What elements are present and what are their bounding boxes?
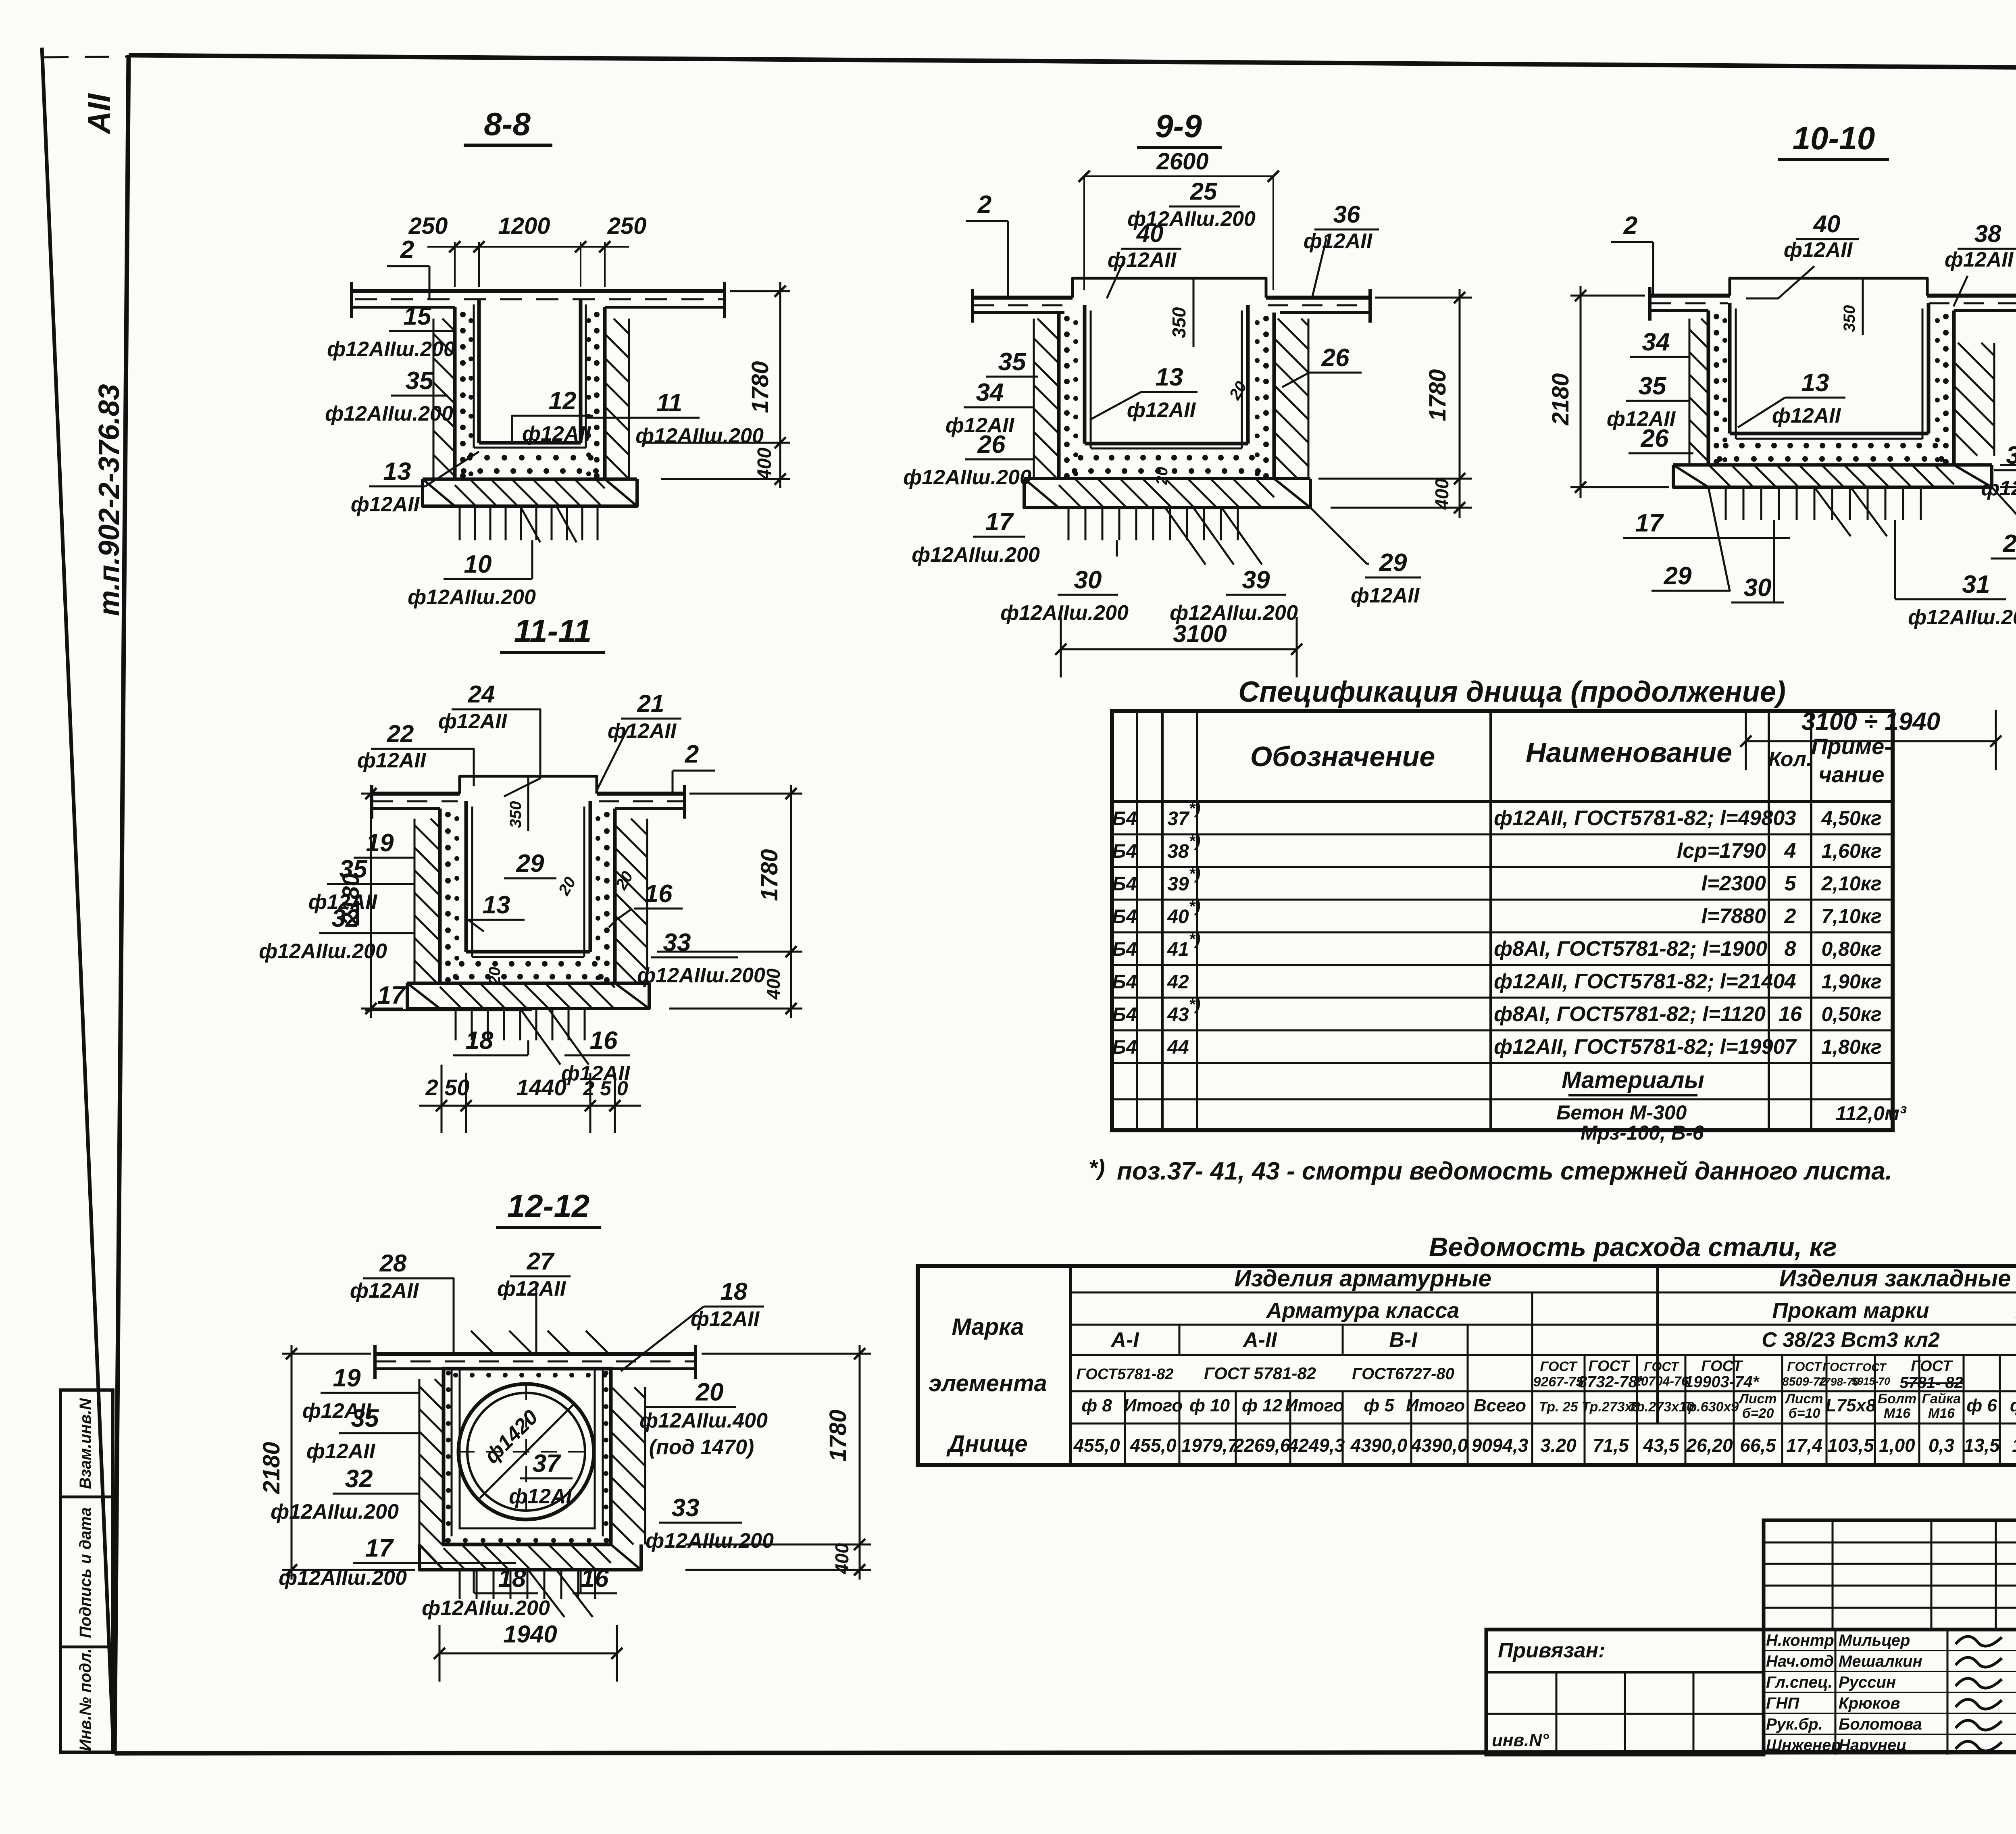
svg-text:26,20: 26,20 [1686, 1435, 1733, 1456]
svg-text:1,00: 1,00 [1879, 1435, 1915, 1456]
section 12-12 right dim 1780/400 [702, 1353, 871, 1355]
svg-text:71,5: 71,5 [1593, 1435, 1629, 1456]
section 10-10 outer hatch bands [1689, 464, 1691, 466]
svg-text:ф12АIIш.200: ф12АIIш.200 [903, 466, 1031, 489]
svg-text:27: 27 [527, 1248, 555, 1275]
svg-text:М16: М16 [1928, 1406, 1955, 1421]
svg-text:2600: 2600 [1156, 148, 1208, 175]
svg-text:Лист: Лист [1738, 1391, 1776, 1407]
svg-text:ф12АIIш.200: ф12АIIш.200 [271, 1500, 399, 1523]
svg-text:17,4: 17,4 [1786, 1435, 1822, 1456]
svg-text:13: 13 [383, 458, 411, 486]
svg-text:*): *) [1089, 1155, 1105, 1180]
section 12-12 wall dots [446, 1371, 451, 1375]
svg-text:9094,3: 9094,3 [1472, 1435, 1529, 1456]
steel table col verticals [1124, 1391, 1126, 1465]
svg-text:29: 29 [1379, 549, 1407, 577]
svg-text:17: 17 [377, 982, 406, 1009]
section 12-12 bottom skirt [419, 1544, 641, 1570]
svg-text:Наименование: Наименование [1526, 737, 1732, 768]
svg-text:26: 26 [1641, 425, 1669, 452]
svg-text:ф12АII: ф12АII [350, 1279, 419, 1303]
svg-text:4,50кг: 4,50кг [1821, 807, 1881, 829]
svg-text:ГОСТ 5781-82: ГОСТ 5781-82 [1204, 1364, 1316, 1383]
svg-text:Ведомость расхода стали, кг: Ведомость расхода стали, кг [1429, 1232, 1837, 1262]
svg-text:Рук.бр.: Рук.бр. [1766, 1715, 1823, 1733]
svg-text:Привязан:: Привязан: [1498, 1639, 1605, 1662]
svg-text:Болт: Болт [1878, 1391, 1916, 1407]
svg-text:2 50: 2 50 [425, 1075, 470, 1100]
svg-text:38: 38 [1974, 220, 2001, 247]
svg-text:ф12АIIш.200: ф12АIIш.200 [637, 964, 765, 987]
svg-text:Руссин: Руссин [1839, 1674, 1896, 1691]
svg-text:10-10: 10-10 [1793, 120, 1875, 156]
svg-text:250: 250 [607, 213, 647, 239]
svg-text:ф12АII, ГОСТ5781-82; l=1990: ф12АII, ГОСТ5781-82; l=1990 [1494, 1035, 1785, 1059]
svg-text:17: 17 [365, 1534, 394, 1562]
svg-text:ГОСТ: ГОСТ [1701, 1358, 1743, 1375]
svg-text:20: 20 [486, 967, 504, 986]
svg-text:ф 10: ф 10 [1189, 1396, 1230, 1415]
svg-text:16: 16 [581, 1565, 609, 1592]
svg-text:ф12АII: ф12АII [1351, 584, 1420, 607]
svg-text:2: 2 [685, 740, 699, 768]
svg-text:ф12АIIш.200: ф12АIIш.200 [327, 338, 455, 361]
section 9-9 top slab [972, 296, 1073, 300]
svg-text:1780: 1780 [1425, 369, 1451, 421]
svg-text:20: 20 [1153, 467, 1171, 486]
svg-text:Подпись и дата: Подпись и дата [77, 1507, 94, 1638]
svg-text:1780: 1780 [756, 849, 783, 901]
svg-text:АII: АII [81, 93, 117, 135]
section 11-11 top slab [371, 792, 460, 796]
svg-text:15: 15 [404, 302, 432, 330]
svg-text:Мильцер: Мильцер [1839, 1632, 1910, 1649]
svg-text:*): *) [1189, 800, 1201, 817]
svg-text:ГОСТ: ГОСТ [1588, 1358, 1630, 1375]
svg-text:4249,3: 4249,3 [1288, 1435, 1345, 1456]
frame border bottom [115, 1752, 2016, 1753]
spec table grid [1112, 711, 1893, 1130]
svg-text:Итого: Итого [1285, 1396, 1344, 1415]
svg-text:0,3: 0,3 [1929, 1435, 1954, 1456]
svg-text:Итого: Итого [1406, 1396, 1465, 1415]
svg-text:ГОСТ: ГОСТ [1644, 1359, 1679, 1374]
svg-text:т.п.902-2-376.83: т.п.902-2-376.83 [93, 384, 125, 616]
svg-text:10704-76: 10704-76 [1634, 1374, 1688, 1388]
svg-text:4: 4 [1784, 970, 1796, 993]
frame border left [115, 55, 129, 1753]
svg-text:19: 19 [333, 1364, 361, 1392]
svg-text:Днище: Днище [946, 1431, 1027, 1457]
svg-text:ГОСТ: ГОСТ [1787, 1359, 1822, 1374]
svg-text:*): *) [1189, 832, 1201, 850]
svg-text:инв.N°: инв.N° [1492, 1730, 1549, 1750]
svg-text:ф12АI: ф12АI [509, 1485, 572, 1508]
section 8-8 walls U-shape [453, 307, 457, 479]
svg-text:18: 18 [466, 1027, 494, 1055]
svg-text:ф 5: ф 5 [1364, 1396, 1394, 1415]
svg-text:ф12АII: ф12АII [1784, 238, 1853, 262]
section 12-12 outer hatch bands [419, 1544, 421, 1546]
section 12-12 hatch above slab [455, 1353, 457, 1355]
svg-text:ф12АIIш.200: ф12АIIш.200 [912, 543, 1040, 567]
svg-text:ГОСТ: ГОСТ [1540, 1359, 1578, 1374]
svg-text:37: 37 [533, 1450, 561, 1478]
svg-text:ГОСТ: ГОСТ [1856, 1361, 1887, 1373]
svg-text:ф12АII, ГОСТ5781-82; l=4980: ф12АII, ГОСТ5781-82; l=4980 [1494, 807, 1785, 830]
svg-text:13,5: 13,5 [1964, 1435, 2000, 1456]
svg-text:7,10кг: 7,10кг [1821, 905, 1881, 927]
svg-text:*): *) [1189, 898, 1201, 915]
svg-text:1940: 1940 [503, 1621, 557, 1648]
svg-text:21: 21 [637, 690, 664, 717]
svg-text:Лист: Лист [1784, 1391, 1823, 1407]
svg-text:Мрз-100, В-6: Мрз-100, В-6 [1581, 1121, 1704, 1144]
svg-text:L75x8: L75x8 [1826, 1396, 1876, 1415]
svg-text:Всего: Всего [1474, 1396, 1526, 1415]
svg-text:350: 350 [1841, 305, 1858, 332]
svg-text:42: 42 [1167, 971, 1189, 993]
svg-text:12-12: 12-12 [507, 1188, 590, 1224]
svg-text:2,10кг: 2,10кг [1821, 872, 1881, 895]
section 11-11 left dim 2180 [361, 793, 435, 795]
title block left attach table [1486, 1630, 1764, 1755]
svg-text:ф12АIIш.200: ф12АIIш.200 [646, 1529, 774, 1553]
svg-text:Гайка: Гайка [1922, 1391, 1961, 1407]
svg-text:40: 40 [1136, 220, 1164, 247]
svg-text:ф12АIIш.400: ф12АIIш.400 [639, 1409, 768, 1432]
svg-text:ф12АII: ф12АII [357, 749, 427, 772]
section 8-8 right dim 1780/400 [730, 290, 790, 292]
svg-text:ф12АII: ф12АII [691, 1307, 760, 1331]
section 12-12 circle opening [458, 1384, 594, 1519]
svg-text:Тр.630x9: Тр.630x9 [1681, 1399, 1739, 1415]
svg-text:В-I: В-I [1389, 1328, 1418, 1352]
svg-text:ф12АII: ф12АII [1108, 248, 1177, 272]
section 12-12 circle diagonal dim [480, 1403, 575, 1498]
svg-text:Н.контр: Н.контр [1766, 1632, 1834, 1649]
svg-text:Б4: Б4 [1112, 939, 1137, 960]
section 9-9 wall dots [1064, 316, 1070, 321]
svg-text:ф12АIIш.200: ф12АIIш.200 [1000, 601, 1129, 625]
svg-text:2: 2 [977, 191, 991, 219]
svg-text:ф12АII: ф12АII [438, 710, 508, 733]
svg-text:2269,6: 2269,6 [1233, 1435, 1291, 1456]
svg-text:М16: М16 [1884, 1406, 1911, 1421]
svg-text:ф12АII: ф12АII [351, 493, 420, 516]
svg-text:40: 40 [1813, 210, 1841, 238]
svg-text:ф8АI, ГОСТ5781-82; l=1120: ф8АI, ГОСТ5781-82; l=1120 [1494, 1002, 1766, 1026]
svg-text:ф12АII: ф12АII [306, 1440, 376, 1463]
svg-text:24: 24 [468, 681, 495, 708]
section 11-11 below hatch [455, 1009, 457, 1040]
svg-text:ф12АIIш.200: ф12АIIш.200 [1981, 477, 2016, 500]
svg-text:Б4: Б4 [1112, 873, 1137, 895]
section 11-11 bottom slab [407, 982, 649, 985]
section 10-10 below hatch [1725, 487, 1727, 520]
section 10-10 walls [1707, 311, 1710, 465]
svg-text:1979,7: 1979,7 [1181, 1435, 1239, 1456]
svg-text:11: 11 [656, 389, 682, 417]
section 12-12 below hatch [459, 1570, 461, 1599]
svg-text:Крюков: Крюков [1839, 1694, 1900, 1712]
svg-text:Б4: Б4 [1112, 971, 1137, 993]
svg-text:350: 350 [507, 801, 525, 828]
svg-text:30: 30 [1074, 566, 1102, 594]
section 11-11 wall dots [445, 812, 451, 817]
svg-text:17: 17 [1635, 509, 1664, 537]
section 11-11 walls [438, 809, 442, 983]
svg-text:Итого: Итого [1124, 1396, 1183, 1415]
svg-text:Материалы: Материалы [1562, 1067, 1704, 1093]
svg-text:l=2300: l=2300 [1702, 872, 1766, 895]
svg-text:103,5: 103,5 [1827, 1435, 1874, 1456]
svg-text:Взам.инв.N: Взам.инв.N [77, 1398, 94, 1489]
svg-text:40: 40 [1167, 906, 1189, 927]
svg-text:9267-75: 9267-75 [1533, 1374, 1584, 1390]
svg-text:1440: 1440 [516, 1075, 567, 1100]
svg-text:1780: 1780 [825, 1409, 851, 1461]
section 9-9 bottom slab [1024, 477, 1310, 480]
section 10-10 top slab [1649, 294, 1730, 298]
section 9-9 below hatch [1068, 508, 1070, 540]
section 12-12 left dim 2180 [282, 1353, 371, 1355]
svg-text:Инв.№ подл.: Инв.№ подл. [77, 1649, 94, 1751]
section 11-11 outer hatch bands [414, 982, 416, 984]
svg-text:112,0м³: 112,0м³ [1835, 1102, 1906, 1125]
svg-text:ГОСТ: ГОСТ [1911, 1358, 1953, 1375]
svg-text:чание: чание [1819, 762, 1885, 787]
section 12-12 box walls [444, 1369, 611, 1544]
svg-text:1,60кг: 1,60кг [1821, 840, 1881, 862]
svg-text:Б4: Б4 [1112, 906, 1137, 927]
svg-text:А-II: А-II [1242, 1328, 1277, 1352]
svg-text:13: 13 [483, 891, 510, 919]
svg-text:39: 39 [1242, 566, 1270, 594]
svg-text:10: 10 [464, 550, 492, 578]
steel table grid [918, 1266, 2016, 1465]
svg-text:ф12АII: ф12АII [1945, 248, 2014, 271]
svg-text:3: 3 [1785, 807, 1796, 830]
svg-text:43,5: 43,5 [1643, 1435, 1680, 1456]
svg-text:ф 6: ф 6 [1966, 1396, 1997, 1415]
svg-text:2: 2 [1784, 904, 1796, 928]
svg-text:ф12АII, ГОСТ5781-82; l=2140: ф12АII, ГОСТ5781-82; l=2140 [1494, 970, 1785, 993]
svg-text:3100: 3100 [1173, 620, 1227, 647]
svg-text:*): *) [1189, 930, 1201, 948]
section 9-9 walls [1057, 313, 1061, 479]
svg-text:35: 35 [1639, 372, 1667, 400]
svg-text:ГНП: ГНП [1766, 1694, 1799, 1712]
svg-text:ф8АI, ГОСТ5781-82; l=1900: ф8АI, ГОСТ5781-82; l=1900 [1494, 937, 1767, 961]
svg-text:18: 18 [498, 1565, 526, 1592]
svg-text:Спецификация днища (продолжен: Спецификация днища (продолжение) [1238, 676, 1786, 708]
svg-text:35: 35 [351, 1405, 379, 1432]
svg-text:250: 250 [408, 213, 448, 239]
svg-text:ф12АII: ф12АII [497, 1277, 566, 1300]
svg-text:16: 16 [1779, 1002, 1802, 1026]
svg-text:350: 350 [1168, 307, 1189, 338]
svg-text:34: 34 [1642, 328, 1670, 356]
title block signatures squiggles [1956, 1636, 2002, 1646]
svg-text:0,80кг: 0,80кг [1821, 938, 1881, 960]
svg-text:Марка: Марка [952, 1314, 1024, 1340]
svg-text:ф 12: ф 12 [1242, 1396, 1283, 1415]
svg-text:*): *) [1189, 996, 1201, 1013]
section 10-10 slab step [1730, 278, 1927, 296]
section 8-8 bottom slab [423, 477, 637, 481]
svg-text:*): *) [1189, 865, 1201, 883]
svg-text:Обозначение: Обозначение [1250, 741, 1435, 772]
frame top dashed stub left [44, 56, 133, 57]
svg-text:ГОСТ6727-80: ГОСТ6727-80 [1352, 1365, 1454, 1383]
svg-text:Бетон М-300: Бетон М-300 [1556, 1101, 1687, 1124]
svg-text:элемента: элемента [929, 1370, 1047, 1396]
section 8-8 outer hatch bands [433, 478, 435, 480]
svg-text:б=20: б=20 [1742, 1406, 1774, 1421]
svg-text:2180: 2180 [258, 1442, 285, 1494]
svg-text:5: 5 [1785, 872, 1797, 895]
svg-text:13: 13 [1801, 369, 1829, 397]
section 10-10 wall dots [1714, 314, 1719, 319]
svg-text:30: 30 [1744, 574, 1772, 602]
left margin stamp boxes [60, 1390, 113, 1752]
svg-text:1200: 1200 [498, 213, 550, 239]
section 8-8 top slab [352, 289, 726, 293]
svg-text:455,0: 455,0 [1129, 1435, 1177, 1456]
svg-text:Арматура класса: Арматура класса [1266, 1298, 1459, 1323]
svg-text:ф12АII: ф12АII [608, 719, 677, 743]
svg-text:35: 35 [406, 367, 434, 395]
svg-text:5915-70: 5915-70 [1851, 1375, 1890, 1387]
svg-text:Мешалкин: Мешалкин [1839, 1653, 1922, 1670]
svg-text:41: 41 [1167, 939, 1189, 960]
section 8-8 bottom skirt [423, 479, 637, 506]
svg-text:ф12АIIш.200: ф12АIIш.200 [635, 424, 764, 448]
svg-text:25: 25 [1190, 178, 1218, 205]
svg-text:4390,0: 4390,0 [1350, 1435, 1408, 1456]
svg-text:31: 31 [1962, 571, 1990, 598]
svg-text:2: 2 [1623, 212, 1637, 240]
svg-text:455,0: 455,0 [1073, 1435, 1120, 1456]
svg-text:13: 13 [1156, 363, 1183, 391]
svg-text:19903-74*: 19903-74* [1685, 1373, 1760, 1391]
svg-text:28: 28 [379, 1250, 407, 1277]
svg-text:7: 7 [1785, 1035, 1797, 1059]
svg-text:l=7880: l=7880 [1702, 904, 1766, 928]
svg-text:39: 39 [1167, 873, 1189, 895]
svg-text:29: 29 [2003, 530, 2016, 558]
section 11-11 right dim 1780/400 [689, 793, 802, 795]
svg-text:38: 38 [1167, 841, 1189, 862]
svg-text:33: 33 [672, 1494, 700, 1522]
svg-text:22: 22 [387, 720, 414, 747]
svg-text:18: 18 [721, 1278, 748, 1305]
svg-text:1,90кг: 1,90кг [1821, 970, 1881, 993]
svg-text:ф 8: ф 8 [1081, 1396, 1112, 1415]
svg-text:ф12АIIш.200: ф12АIIш.200 [259, 940, 387, 963]
section 10-10 left dim 2180 [1570, 295, 1645, 297]
svg-text:Прокат марки: Прокат марки [1772, 1298, 1929, 1323]
sheet outer left edge line [42, 48, 114, 1754]
svg-text:4390,0: 4390,0 [1411, 1435, 1468, 1456]
svg-text:9-9: 9-9 [1155, 108, 1202, 144]
section 8-8 dim 250-1200-250 [454, 242, 456, 287]
section 9-9 slab step 350 [1073, 278, 1266, 298]
svg-text:34: 34 [976, 379, 1004, 406]
svg-text:36: 36 [1333, 201, 1360, 228]
svg-text:Б4: Б4 [1112, 808, 1137, 829]
svg-text:4: 4 [1784, 839, 1796, 863]
svg-text:Шнженер: Шнженер [1766, 1736, 1841, 1754]
svg-text:26: 26 [977, 431, 1006, 458]
section 8-8 below-slab hatch lines [459, 506, 461, 540]
svg-text:12: 12 [549, 387, 577, 415]
svg-text:Б4: Б4 [1112, 841, 1137, 862]
svg-text:11-11: 11-11 [514, 613, 592, 649]
svg-text:Нач.отд: Нач.отд [1766, 1653, 1834, 1670]
svg-text:ф12АII: ф12АII [1127, 398, 1196, 422]
section 10-10 bottom slab [1673, 463, 1992, 467]
svg-text:400: 400 [1431, 478, 1452, 510]
svg-text:3.20: 3.20 [1540, 1435, 1577, 1456]
section 9-9 right dim 1780/400 [1375, 297, 1472, 299]
svg-text:2180: 2180 [1547, 373, 1574, 425]
svg-text:Б4: Б4 [1112, 1004, 1137, 1025]
svg-text:ф12АIIш.200: ф12АIIш.200 [408, 586, 536, 609]
svg-text:16: 16 [590, 1027, 618, 1055]
svg-text:ф12АII: ф12АII [1304, 229, 1373, 253]
svg-text:Изделия арматурные: Изделия арматурные [1234, 1265, 1491, 1292]
svg-text:8-8: 8-8 [484, 106, 531, 142]
svg-text:44: 44 [1167, 1037, 1189, 1058]
svg-text:Кол.: Кол. [1768, 748, 1812, 771]
section 11-11 slab step [460, 776, 597, 794]
svg-text:16: 16 [645, 880, 673, 908]
svg-text:lср=1790: lср=1790 [1677, 839, 1766, 863]
svg-text:37: 37 [1167, 808, 1190, 829]
svg-text:С 38/23 Вст3 кл2: С 38/23 Вст3 кл2 [1762, 1328, 1940, 1352]
svg-text:ф12АIIш.200: ф12АIIш.200 [325, 402, 453, 425]
svg-text:Нарунец: Нарунец [1839, 1736, 1907, 1754]
svg-text:32: 32 [345, 1465, 373, 1493]
svg-text:400: 400 [763, 968, 784, 1000]
svg-text:400: 400 [831, 1543, 852, 1574]
svg-text:29: 29 [516, 850, 544, 877]
svg-text:43: 43 [1167, 1004, 1189, 1025]
svg-text:400: 400 [754, 448, 775, 480]
svg-text:ф 12: ф 12 [2010, 1396, 2016, 1415]
svg-text:1,80кг: 1,80кг [1821, 1036, 1881, 1058]
svg-text:1,80: 1,80 [2012, 1435, 2016, 1456]
section 12-12 top slab [374, 1352, 697, 1356]
svg-text:(под 1470): (под 1470) [649, 1436, 754, 1459]
svg-text:ф12АII: ф12АII [522, 422, 591, 446]
svg-text:ф12АII: ф12АII [1772, 404, 1841, 427]
svg-text:б=10: б=10 [1789, 1406, 1820, 1421]
title block revision grid [1764, 1520, 2016, 1630]
svg-text:ф12АIIш.200: ф12АIIш.200 [1908, 606, 2016, 629]
svg-text:8: 8 [1785, 937, 1796, 961]
svg-text:Б4: Б4 [1112, 1037, 1137, 1058]
svg-text:29: 29 [1664, 562, 1692, 590]
section 9-9 outer hatch bands [1033, 478, 1035, 480]
svg-text:Приме-: Приме- [1811, 734, 1892, 759]
svg-text:0,50кг: 0,50кг [1821, 1003, 1881, 1025]
svg-text:2: 2 [400, 236, 414, 264]
svg-text:Изделия закладные: Изделия закладные [1779, 1265, 2011, 1292]
